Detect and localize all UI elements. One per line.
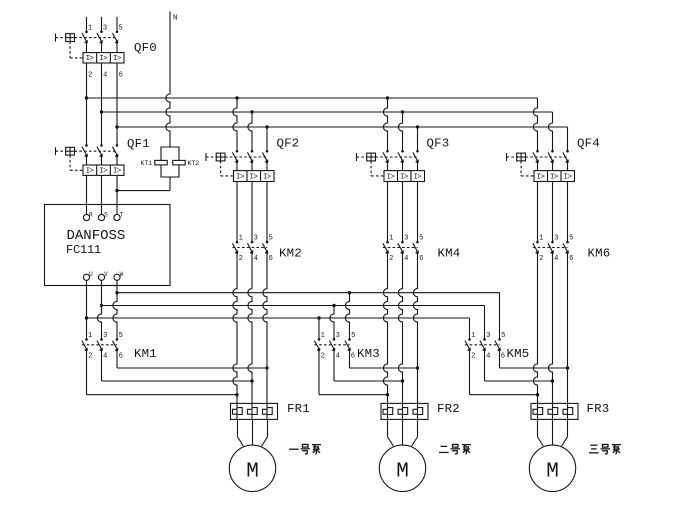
svg-text:3: 3 [103, 25, 107, 33]
contactor KM4 pole 3 contact [413, 241, 419, 254]
motor M1 circle [229, 445, 275, 491]
svg-text:6: 6 [119, 353, 123, 361]
svg-text:I>: I> [113, 168, 122, 176]
N neutral supply line [166, 12, 170, 148]
contactor KM3 pin numbers 1 3 5 [321, 332, 356, 340]
breaker QF3 pole 1 contact [383, 150, 389, 171]
QF0 bottom pin numbers 2 4 6 [88, 71, 123, 79]
svg-text:2: 2 [471, 353, 475, 361]
contactor KM5 pin numbers 2 4 6 [471, 353, 505, 361]
breaker QF3 pole 3 contact [413, 150, 419, 171]
breaker QF1 mechanism linkage [56, 147, 118, 170]
contactor KM1 pole 3 contact [112, 338, 118, 351]
wires QF2 outputs down to KM2 [237, 182, 267, 243]
svg-text:FR3: FR3 [587, 402, 610, 416]
breaker QF2 mechanism linkage [206, 153, 267, 176]
contactor KM6 linkage [533, 247, 568, 249]
top bus L3 to QF4 [117, 127, 568, 151]
thermal relay FR1 box [231, 403, 278, 419]
svg-text:3: 3 [103, 332, 107, 340]
wire KM1 pin6 to relay column 3 [117, 350, 269, 370]
contactor KM5 pole 2 contact [480, 338, 486, 351]
svg-text:QF1: QF1 [127, 137, 150, 151]
svg-text:1: 1 [389, 235, 393, 243]
contactor KM1 linkage [82, 344, 117, 346]
contactor KM4 pin numbers 2 4 6 [389, 255, 423, 263]
svg-text:5: 5 [269, 235, 273, 243]
contactor KM5 pole 1 contact [465, 338, 471, 351]
contactor KM1 pole 2 contact [97, 338, 103, 351]
wire KT loop to QF1 pole3 output [115, 177, 170, 192]
svg-text:I>: I> [250, 173, 259, 181]
svg-text:6: 6 [269, 255, 273, 263]
svg-text:FC111: FC111 [66, 243, 101, 257]
svg-text:3: 3 [486, 332, 490, 340]
top bus L1 to QF4 [87, 98, 538, 151]
breaker QF0 mechanism linkage [56, 34, 118, 58]
contactor KM1 pin numbers 1 3 5 [88, 332, 123, 340]
svg-text:1: 1 [539, 235, 543, 243]
svg-text:3: 3 [404, 235, 408, 243]
svg-text:4: 4 [103, 353, 107, 361]
breaker QF2 pole 3 contact [262, 150, 268, 171]
breaker QF0 pole 1 contact [82, 31, 88, 53]
svg-text:FR1: FR1 [287, 402, 310, 416]
svg-text:3: 3 [254, 235, 258, 243]
contactor KM3 pole 3 contact [345, 338, 351, 351]
contactor KM6 pole 1 contact [533, 241, 539, 254]
svg-text:I>: I> [113, 55, 122, 63]
breaker QF1 pole 1 contact [82, 144, 88, 165]
wire KM1 pin4 to relay column 2 [102, 350, 254, 383]
breaker QF4 pole 1 contact [533, 150, 539, 171]
thermal relay FR3 heater element 2 [548, 403, 558, 419]
svg-text:2: 2 [239, 255, 243, 263]
svg-text:KT2: KT2 [188, 160, 200, 167]
svg-text:M: M [246, 461, 259, 484]
svg-text:3: 3 [336, 332, 340, 340]
contactor KM4 linkage [383, 247, 418, 249]
svg-text:I>: I> [564, 173, 573, 181]
svg-text:FR2: FR2 [437, 402, 460, 416]
breaker QF4 mechanism linkage [507, 153, 568, 176]
svg-text:I>: I> [400, 173, 409, 181]
svg-text:2: 2 [539, 255, 543, 263]
contactor KM2 pole 2 contact [247, 241, 253, 254]
svg-text:1: 1 [88, 25, 92, 33]
FC111 input terminals R S T [83, 211, 123, 220]
wire KM1 pin2 to relay column 1 [87, 350, 239, 396]
svg-text:6: 6 [501, 353, 505, 361]
wires KM6 outputs down to FR3 [533, 253, 567, 404]
contactor KM2 pin numbers 2 4 6 [239, 255, 273, 263]
thermal relay FR2 heater element 2 [398, 403, 408, 419]
top bus L2 to QF4 [102, 112, 553, 151]
svg-text:QF0: QF0 [134, 41, 157, 55]
svg-text:I>: I> [99, 168, 108, 176]
breaker QF0 pole 2 contact [97, 31, 103, 53]
contactor KM4 pole 2 contact [398, 241, 404, 254]
pump label 1 yi hao beng [289, 444, 321, 454]
svg-text:1: 1 [239, 235, 243, 243]
svg-text:KM2: KM2 [279, 247, 302, 261]
svg-text:2: 2 [321, 353, 325, 361]
wires FR3 to motor M3 [538, 419, 568, 446]
breaker QF1 pole 2 contact [97, 144, 103, 165]
wires FC111 U V W outputs down to KM1 [85, 280, 119, 339]
wire KM3 pin2 to relay column 1 [319, 350, 389, 396]
contactor KM1 pole 1 contact [82, 338, 88, 351]
wires KM2 outputs down to FR1 [233, 253, 267, 404]
svg-text:6: 6 [351, 353, 355, 361]
contactor KM6 pole 3 contact [563, 241, 569, 254]
contactor KM2 pole 1 contact [232, 241, 238, 254]
svg-text:4: 4 [103, 71, 107, 79]
thermal relay FR3 heater element 1 [533, 403, 543, 419]
svg-text:4: 4 [254, 255, 258, 263]
thermal relay FR2 heater element 3 [413, 403, 423, 419]
svg-text:5: 5 [569, 235, 573, 243]
svg-text:1: 1 [88, 332, 92, 340]
svg-text:DANFOSS: DANFOSS [67, 228, 126, 244]
svg-text:6: 6 [119, 71, 123, 79]
FC111 output terminals U V W [83, 271, 123, 280]
wire KM3 pin4 to relay column 2 [334, 350, 404, 383]
thermal relay FR2 box [381, 403, 428, 419]
motor M2 circle [379, 445, 425, 491]
wire KM5 pin6 to relay column 3 [500, 350, 570, 370]
breaker QF4 pole 2 contact [548, 150, 554, 171]
junction dots QF0 outputs on buses [85, 96, 119, 128]
svg-text:M: M [546, 461, 559, 484]
svg-text:4: 4 [554, 255, 558, 263]
pump label 3 san hao beng [589, 444, 621, 454]
thermal relay FR1 heater element 1 [233, 403, 243, 419]
svg-text:QF2: QF2 [277, 137, 300, 151]
thermal relay FR1 heater element 3 [263, 403, 273, 419]
contactor KM6 pin numbers 1 3 5 [539, 235, 573, 243]
svg-text:5: 5 [118, 25, 122, 33]
wires QF1 outputs to FC111 R S T [87, 175, 118, 214]
contactor KM2 linkage [232, 247, 267, 249]
VFD output bus V phase to KM5 [102, 306, 485, 340]
contactor KM3 pole 2 contact [329, 338, 335, 351]
svg-text:QF3: QF3 [427, 137, 450, 151]
svg-text:KM3: KM3 [357, 347, 380, 361]
breaker QF4 pole 3 contact [563, 150, 569, 171]
svg-text:KM1: KM1 [134, 347, 157, 361]
breaker QF1 trip units I> [83, 165, 124, 176]
breaker QF2 pole 2 contact [247, 150, 253, 171]
breaker QF2 pole 1 contact [232, 150, 238, 171]
svg-text:I>: I> [263, 173, 272, 181]
contactor KM5 pole 3 contact [495, 338, 501, 351]
contactor KM3 pin numbers 2 4 6 [321, 353, 355, 361]
wires KM4 outputs down to FR2 [383, 253, 417, 404]
QF3 feed taps from buses [383, 96, 419, 151]
QF0 incoming supply lines L1 L2 L3 [87, 17, 118, 32]
svg-text:I>: I> [99, 55, 108, 63]
svg-text:1: 1 [471, 332, 475, 340]
svg-text:KT1: KT1 [141, 160, 153, 167]
svg-text:5: 5 [119, 332, 123, 340]
svg-text:M: M [396, 461, 409, 484]
svg-text:R: R [89, 211, 93, 218]
VFD output bus U phase to KM5 [87, 318, 470, 339]
svg-text:4: 4 [486, 353, 490, 361]
contactor KM5 pin numbers 1 3 5 [471, 332, 505, 340]
wire KM5 pin4 to relay column 2 [485, 350, 555, 383]
breaker QF3 trip units I> [384, 171, 425, 182]
VFD U1 DANFOSS FC111 box [45, 205, 171, 286]
KM3 feed taps from VFD buses [317, 291, 351, 339]
wires QF0 outputs down to QF1 through bus taps [87, 63, 118, 145]
svg-text:I>: I> [387, 173, 396, 181]
thermal relay FR3 box [531, 403, 578, 419]
svg-text:4: 4 [336, 353, 340, 361]
wire KM5 pin2 to relay column 1 [470, 350, 540, 396]
breaker QF0 pole 3 contact [112, 31, 118, 53]
svg-text:KM4: KM4 [438, 247, 461, 261]
breaker QF4 trip units I> [534, 171, 575, 182]
wires QF3 outputs down to KM4 [388, 182, 418, 243]
wires FR1 to motor M1 [238, 419, 268, 446]
svg-text:2: 2 [389, 255, 393, 263]
svg-text:KM6: KM6 [588, 247, 611, 261]
svg-text:5: 5 [419, 235, 423, 243]
svg-text:QF4: QF4 [577, 137, 600, 151]
contactor KM2 pole 3 contact [262, 241, 268, 254]
wire KM3 pin6 to relay column 3 [350, 350, 420, 370]
svg-text:6: 6 [419, 255, 423, 263]
svg-text:I>: I> [550, 173, 559, 181]
time relay coils KT1 KT2 parallel loop [155, 147, 185, 177]
svg-text:N: N [173, 15, 178, 23]
svg-text:2: 2 [88, 71, 92, 79]
svg-text:6: 6 [569, 255, 573, 263]
motor M3 circle [529, 445, 575, 491]
contactor KM2 pin numbers 1 3 5 [239, 235, 273, 243]
svg-text:V: V [104, 271, 108, 278]
pump label 2 er hao beng [439, 444, 471, 454]
svg-text:T: T [120, 211, 124, 218]
contactor KM4 pole 1 contact [383, 241, 389, 254]
contactor KM4 pin numbers 1 3 5 [389, 235, 423, 243]
breaker QF3 pole 2 contact [398, 150, 404, 171]
svg-text:2: 2 [88, 353, 92, 361]
svg-text:I>: I> [86, 168, 95, 176]
svg-text:1: 1 [321, 332, 325, 340]
thermal relay FR3 heater element 3 [563, 403, 573, 419]
svg-text:I>: I> [236, 173, 245, 181]
contactor KM3 pole 1 contact [314, 338, 320, 351]
svg-text:W: W [120, 271, 124, 278]
breaker QF0 trip units I> [83, 53, 124, 64]
wires FR2 to motor M2 [388, 419, 418, 446]
QF2 feed taps from buses [233, 96, 269, 151]
contactor KM6 pin numbers 2 4 6 [539, 255, 573, 263]
contactor KM1 pin numbers 2 4 6 [88, 353, 123, 361]
breaker QF3 mechanism linkage [357, 153, 418, 176]
svg-text:KM5: KM5 [507, 347, 530, 361]
svg-text:I>: I> [537, 173, 546, 181]
wires QF4 outputs down to KM6 [538, 182, 568, 243]
svg-text:5: 5 [501, 332, 505, 340]
svg-text:S: S [104, 211, 108, 218]
svg-text:4: 4 [404, 255, 408, 263]
contactor KM5 linkage [465, 344, 500, 346]
svg-text:5: 5 [351, 332, 355, 340]
breaker QF2 trip units I> [234, 171, 275, 182]
contactor KM3 linkage [314, 344, 349, 346]
svg-text:U: U [89, 271, 93, 278]
thermal relay FR2 heater element 1 [383, 403, 393, 419]
breaker QF1 pole 3 contact [112, 144, 118, 165]
thermal relay FR1 heater element 2 [248, 403, 258, 419]
svg-text:I>: I> [414, 173, 423, 181]
svg-text:3: 3 [554, 235, 558, 243]
VFD output bus W phase to KM5 [117, 293, 500, 340]
contactor KM6 pole 2 contact [548, 241, 554, 254]
svg-text:I>: I> [86, 55, 95, 63]
QF0 top pin numbers [88, 25, 123, 33]
